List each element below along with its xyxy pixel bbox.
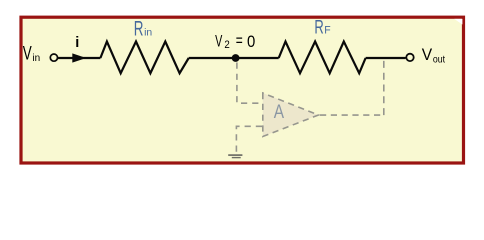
svg-text:F: F [324, 24, 331, 36]
svg-text:=: = [236, 32, 243, 50]
svg-text:0: 0 [247, 33, 255, 51]
svg-text:in: in [144, 26, 152, 38]
svg-text:2: 2 [224, 39, 229, 51]
svg-text:out: out [433, 54, 445, 66]
svg-text:V: V [422, 46, 433, 64]
svg-text:V: V [23, 44, 32, 65]
svg-text:V: V [215, 32, 222, 50]
svg-text:R: R [314, 17, 323, 38]
svg-text:i: i [75, 35, 79, 51]
svg-text:A: A [274, 102, 285, 123]
svg-text:in: in [32, 52, 40, 64]
svg-text:R: R [134, 18, 144, 41]
